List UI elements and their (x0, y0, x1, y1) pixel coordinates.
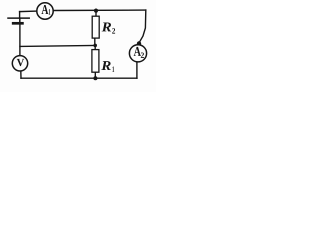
battery B1 long plate (8, 17, 29, 19)
battery B1 top stub (19, 12, 21, 18)
node junction dot middle rail R2/R1 (93, 44, 97, 48)
wire A2 to bottom rail (136, 62, 138, 78)
wire left branch battery to V (19, 25, 21, 56)
wire R2 bottom stub (94, 38, 96, 45)
node junction dot at R2 top on top rail (94, 9, 98, 13)
wire top rail (20, 10, 37, 13)
wire right branch (139, 10, 146, 43)
resistor R2 (92, 16, 99, 38)
wire R1 bottom stub (94, 72, 96, 78)
label R2 (102, 23, 111, 32)
voltmeter V (12, 56, 27, 71)
wire V to bottom rail (20, 71, 22, 78)
battery B1 short plate (13, 22, 22, 25)
wire middle rail (20, 45, 95, 46)
wire bottom rail (21, 77, 137, 79)
wire R1 top stub (94, 45, 96, 49)
battery B1 inter-plate tick (19, 18, 21, 22)
label R1 (101, 61, 110, 70)
ammeter A2 (129, 45, 146, 62)
wire R2 top stub (95, 10, 97, 16)
resistor R1 (92, 50, 99, 73)
node junction dot R1 bottom on bottom rail (93, 76, 97, 80)
node junction dot above A2 (137, 41, 141, 45)
ammeter A1 (37, 3, 53, 19)
